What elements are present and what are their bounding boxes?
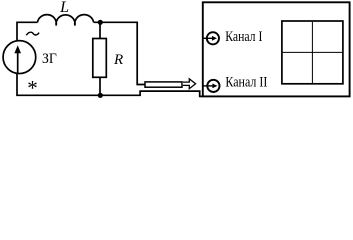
svg-text:L: L (59, 0, 69, 16)
inductor L (38, 15, 94, 26)
screen crosshair (311, 22, 313, 83)
screen (282, 21, 343, 84)
hollow arrow to oscilloscope (183, 79, 196, 89)
wire source bottom to bottom-left corner and bottom wire (17, 73, 203, 96)
wire inductor to top-right corner (94, 22, 145, 84)
source arrow (17, 52, 19, 73)
connector channel II (207, 80, 219, 92)
oscilloscope box (203, 2, 350, 96)
svg-text:Канал II: Канал II (225, 75, 267, 91)
connector channel I (207, 32, 219, 44)
resistor R leads (99, 22, 101, 38)
svg-text:*: * (27, 76, 38, 100)
source generator circle (3, 41, 36, 74)
node junction dot bottom (98, 93, 103, 98)
svg-text:R: R (113, 52, 123, 68)
coax cable body (145, 82, 182, 87)
svg-text:Канал I: Канал I (225, 29, 262, 45)
node junction dot top (98, 20, 103, 25)
svg-text:ЗГ: ЗГ (42, 51, 57, 67)
wire top-left to inductor (17, 22, 38, 41)
tilde ~ (26, 32, 39, 35)
resistor R body (93, 39, 107, 78)
